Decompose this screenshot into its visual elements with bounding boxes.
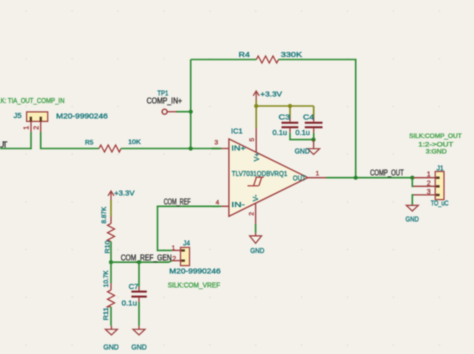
op-amp IC1 body [229, 127, 308, 217]
power +3.3V (reference divider) [108, 189, 135, 200]
J4 pin 1 [172, 245, 181, 252]
svg-text:5: 5 [249, 138, 256, 142]
svg-text:0.1u: 0.1u [295, 128, 310, 137]
J1 pin 1 [414, 172, 436, 179]
svg-text:M20-9990246: M20-9990246 [169, 267, 220, 276]
wire op-amp output [326, 177, 414, 179]
svg-text:COMP_OUT: COMP_OUT [370, 168, 404, 177]
svg-text:V-: V- [253, 194, 260, 201]
junction at C7 [137, 260, 141, 264]
junction divider [109, 260, 113, 264]
connector J1 body [435, 172, 444, 200]
J1 pin 3 [414, 189, 436, 196]
resistor R4 [239, 50, 302, 63]
connector J5 body [27, 112, 48, 122]
capacitor C4 [295, 113, 322, 137]
svg-text:2: 2 [249, 212, 256, 216]
svg-text:GND: GND [103, 343, 119, 352]
wire pin 2 to ground [255, 224, 257, 233]
op-amp pin 3 IN+ [212, 140, 247, 153]
svg-text:R4: R4 [239, 50, 250, 59]
wire feedback top right [279, 60, 356, 178]
J5 pin 1 [24, 121, 31, 132]
svg-text:V+: V+ [254, 153, 261, 162]
svg-text:SILK:COM_VREF: SILK:COM_VREF [168, 283, 220, 290]
wire COM_REF_GEN [111, 261, 172, 262]
wire pin5 supply drop [255, 106, 257, 128]
wire J1 pin2 stub [412, 178, 413, 187]
wire C4 bottom drop [313, 133, 315, 140]
svg-text:IC1: IC1 [231, 127, 243, 136]
wire overlay at IN- pin [212, 205, 222, 207]
wire overlay at IN+ pin [212, 148, 222, 150]
wire TIA out entering left [0, 148, 31, 150]
J5 pin 2 [33, 121, 40, 132]
svg-text:330K: 330K [281, 50, 302, 59]
power +3.3V (op-amp rail) [253, 89, 282, 100]
junction at TP1 tap [189, 110, 193, 114]
J4 pin 2 [172, 256, 181, 263]
svg-text:TLV7031QDBVRQ1: TLV7031QDBVRQ1 [232, 169, 287, 178]
svg-text:10K: 10K [128, 140, 141, 146]
wire J1 pin3 to ground [412, 195, 413, 205]
svg-text:COM_REF: COM_REF [164, 197, 191, 206]
op-amp pin 5 V+ [249, 128, 261, 161]
svg-text:UT: UT [0, 140, 8, 149]
svg-text:J1: J1 [437, 163, 444, 172]
svg-text:COMP_IN+: COMP_IN+ [147, 96, 183, 105]
wire junction to R11 [110, 262, 112, 283]
wire feedback vertical [190, 60, 192, 149]
ground below op-amp [250, 233, 265, 255]
wire TP1 to net [176, 111, 191, 113]
svg-text:2: 2 [33, 126, 40, 130]
svg-text:IN-: IN- [231, 200, 245, 209]
wire C3 top drop [289, 106, 291, 117]
svg-text:2: 2 [427, 180, 431, 187]
wire R5 to op-amp IN+ [121, 148, 219, 150]
svg-text:SILK:COMP_OUT: SILK:COMP_OUT [409, 133, 462, 140]
wire R11 to ground [110, 307, 112, 326]
capacitor C7 [122, 282, 147, 308]
wire C7 to ground [138, 302, 140, 326]
junction +3.3V rail [254, 104, 258, 108]
svg-text:1:2->OUT: 1:2->OUT [418, 141, 453, 148]
ground below J1 [406, 205, 420, 223]
svg-text:GND: GND [250, 246, 265, 255]
resistor R5 [85, 140, 141, 152]
ground below C4 [295, 140, 320, 156]
svg-text:SILK: TIA_OUT_COMP_IN: SILK: TIA_OUT_COMP_IN [0, 98, 65, 105]
junction at R5/feedback [189, 146, 193, 150]
resistor R10 [102, 207, 114, 254]
svg-text:GND: GND [131, 343, 147, 352]
ground below R11 [103, 326, 119, 352]
junction feedback/output [354, 176, 358, 180]
wire junction to C7 [138, 262, 140, 286]
svg-text:+3.3V: +3.3V [260, 89, 282, 98]
svg-text:1: 1 [172, 245, 176, 252]
svg-text:TO_uC: TO_uC [431, 199, 449, 208]
schmitt hysteresis mark [248, 177, 264, 186]
svg-text:R11: R11 [103, 307, 110, 320]
J1 pin 2 [414, 180, 436, 187]
wire +3.3V to R10 [110, 200, 112, 217]
wire J5 pin2 drop [41, 132, 99, 149]
svg-text:M20-9990246: M20-9990246 [56, 112, 108, 121]
svg-text:GND: GND [295, 147, 311, 156]
wire +3.3V rail drop [255, 100, 257, 106]
svg-text:IN+: IN+ [231, 144, 246, 153]
capacitor C3 [273, 113, 299, 137]
svg-text:+3.3V: +3.3V [114, 189, 134, 198]
wire R10 to junction [110, 242, 112, 263]
ground below C7 [131, 326, 147, 352]
wire C3 bottom to C4 bottom [290, 133, 314, 140]
svg-text:1: 1 [427, 172, 431, 179]
svg-text:OUT: OUT [293, 173, 306, 182]
svg-text:C3: C3 [279, 113, 291, 122]
svg-text:3: 3 [215, 140, 219, 147]
svg-text:COM_REF_GEN: COM_REF_GEN [121, 253, 172, 262]
svg-text:0.1u: 0.1u [122, 299, 137, 308]
svg-text:8.87K: 8.87K [102, 207, 108, 224]
svg-text:3: 3 [427, 189, 431, 196]
wire feedback top left [191, 59, 257, 61]
svg-text:R5: R5 [85, 141, 94, 147]
svg-text:1: 1 [316, 170, 320, 177]
op-amp pin 4 IN- [212, 199, 246, 209]
svg-text:C4: C4 [303, 113, 314, 122]
svg-text:3:GND: 3:GND [426, 148, 447, 155]
op-amp pin 2 V- [249, 194, 261, 224]
op-amp pin 1 OUT [293, 170, 326, 182]
wire C4 top drop [313, 106, 315, 117]
silkscreen note SILK:COMP_OUT [409, 133, 462, 155]
testpoint TP1 [157, 89, 176, 115]
svg-text:1: 1 [24, 126, 31, 130]
junction below C4 [311, 138, 315, 142]
wire IN- to COM_REF [158, 206, 220, 250]
junction at J1 pins 1-2 [410, 176, 414, 180]
wire rail to caps [256, 105, 314, 107]
svg-text:GND: GND [406, 214, 420, 223]
svg-text:2: 2 [172, 256, 176, 263]
resistor R11 [103, 270, 114, 320]
connector J4 body [181, 247, 190, 265]
svg-text:0.1u: 0.1u [273, 128, 288, 137]
svg-text:4: 4 [216, 199, 220, 206]
svg-text:J4: J4 [183, 238, 190, 247]
wire J5 pin1 drop [30, 132, 32, 149]
junction above C3 [288, 104, 292, 108]
svg-text:J5: J5 [14, 111, 22, 120]
svg-text:10.7K: 10.7K [104, 270, 110, 287]
svg-text:C7: C7 [129, 282, 139, 291]
